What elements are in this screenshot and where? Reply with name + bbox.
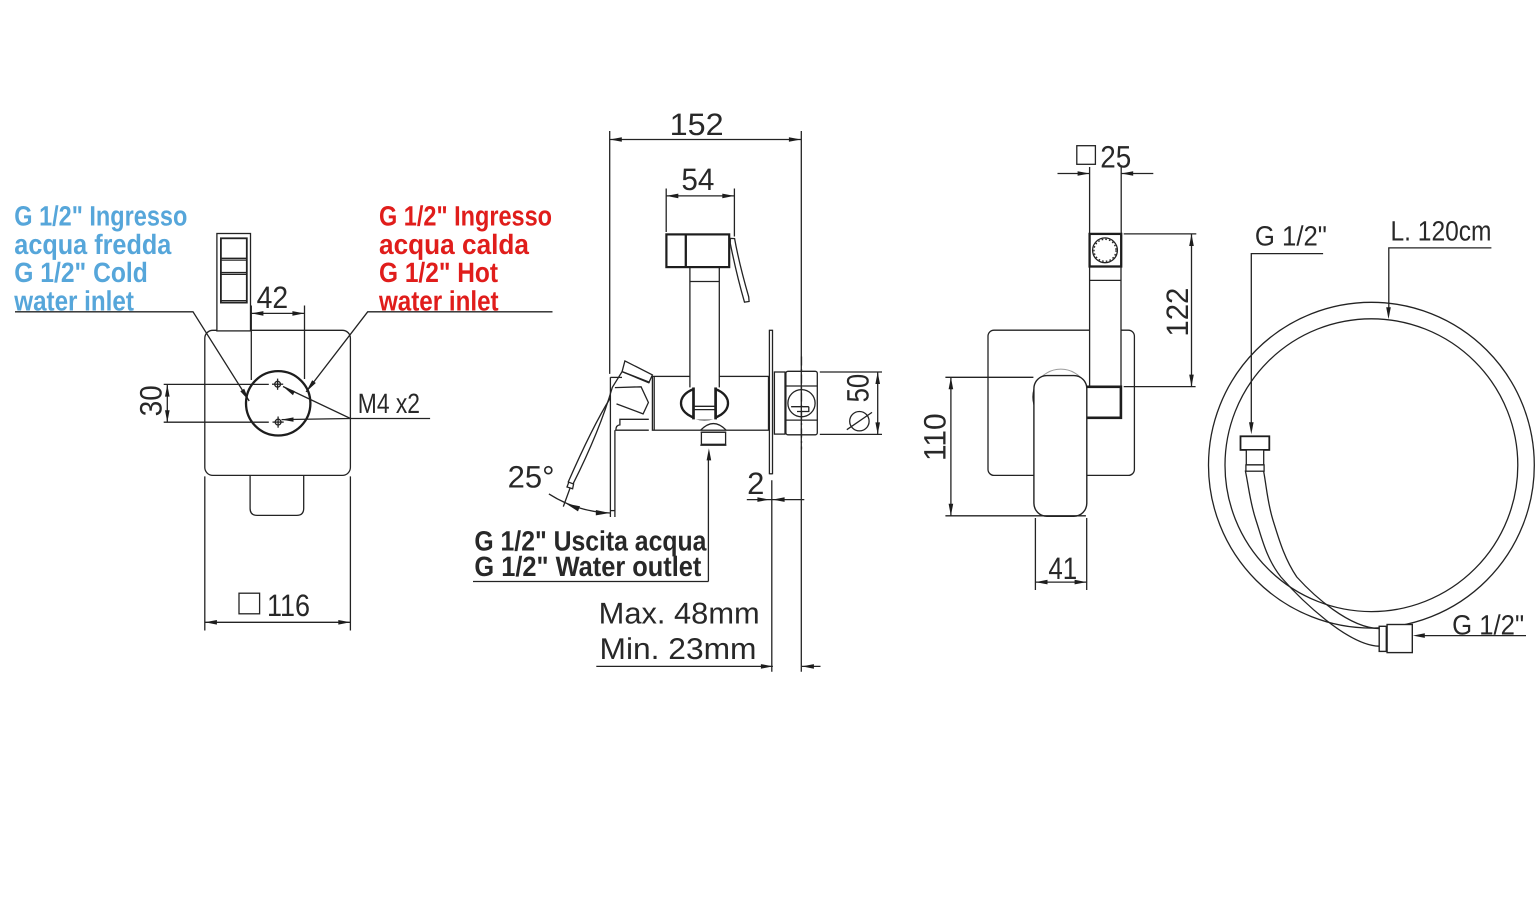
svg-text:G 1/2" Ingresso: G 1/2" Ingresso bbox=[379, 201, 552, 232]
dimension 122 (rotated) bbox=[1160, 234, 1195, 387]
svg-text:M4 x2: M4 x2 bbox=[358, 388, 420, 419]
holder bracket (thick) bbox=[1085, 387, 1121, 418]
dimension diam 50 extension lines bbox=[820, 371, 882, 373]
mixer lever arm (25 deg) bbox=[567, 372, 622, 489]
dimension 110 extension lines bbox=[945, 376, 1033, 378]
svg-text:acqua fredda: acqua fredda bbox=[14, 229, 171, 260]
labels Max/Min depth bbox=[599, 598, 760, 667]
escutcheon circle on plate bbox=[246, 371, 310, 435]
dimension 54 bbox=[666, 162, 734, 198]
svg-text:G 1/2" Hot: G 1/2" Hot bbox=[379, 257, 498, 288]
dimension diam 50 (rotated) bbox=[841, 372, 881, 434]
dimension 42 extension lines bbox=[250, 306, 252, 381]
wall plate edge-on (2mm) bbox=[769, 330, 772, 475]
wall plate (front view, square 116) bbox=[205, 330, 351, 475]
dimension 30 extension lines bbox=[164, 383, 269, 385]
in-wall flange ring bbox=[774, 372, 785, 434]
svg-text:54: 54 bbox=[681, 162, 714, 197]
label: water outlet (bold) bbox=[474, 526, 706, 583]
dimension square-25 bbox=[1058, 140, 1154, 176]
hand shower tube narrow section through ring bbox=[694, 386, 716, 419]
label L 120cm with leader to hose bbox=[1386, 216, 1491, 320]
label: hot water inlet text (red) bbox=[378, 201, 552, 317]
dimension 2 (plate thickness) bbox=[747, 466, 805, 502]
svg-text:G 1/2" Ingresso: G 1/2" Ingresso bbox=[14, 201, 187, 232]
svg-text:152: 152 bbox=[670, 107, 724, 142]
dimension 42 bbox=[251, 280, 304, 316]
svg-text:2: 2 bbox=[747, 466, 764, 501]
hand shower column (side) bbox=[1090, 267, 1121, 387]
svg-text:25°: 25° bbox=[508, 460, 555, 495]
dimension Max/Min line with arrows bbox=[596, 664, 820, 669]
svg-text:G 1/2" Cold: G 1/2" Cold bbox=[14, 257, 148, 288]
control handle (side view) bbox=[1034, 376, 1087, 517]
hand shower holder ring bbox=[681, 387, 728, 419]
hand shower tube bbox=[690, 267, 719, 387]
hose top fitting bbox=[1241, 436, 1270, 471]
in-wall valve body bbox=[786, 371, 817, 435]
wall reference line (right extension, full height) bbox=[800, 131, 802, 672]
centerline of in-wall body bbox=[801, 357, 803, 450]
valve base step bbox=[610, 419, 648, 517]
screw hole bottom bbox=[273, 417, 284, 428]
svg-text:Max. 48mm: Max. 48mm bbox=[599, 598, 760, 631]
svg-text:acqua calda: acqua calda bbox=[379, 229, 529, 260]
wall plate (side view) bbox=[988, 330, 1134, 475]
hand shower holder behind plate (front view) bbox=[250, 476, 304, 516]
hose coil inner circle bbox=[1225, 319, 1518, 612]
hose bottom fitting bbox=[1379, 625, 1412, 653]
hand shower trigger lever bbox=[730, 238, 749, 302]
hand shower head (side) with knurled button bbox=[1090, 234, 1122, 267]
svg-text:41: 41 bbox=[1048, 551, 1077, 586]
label: cold water inlet text (blue) bbox=[13, 201, 187, 317]
mixer handle (front view, vertical lever) bbox=[217, 234, 251, 331]
svg-text:42: 42 bbox=[257, 280, 289, 315]
outlet label leader bbox=[473, 448, 711, 581]
dimension 152 extension lines bbox=[609, 131, 611, 374]
screw hole top bbox=[272, 379, 283, 390]
hand shower head bbox=[666, 234, 729, 267]
hose spiral inner edge bbox=[1264, 471, 1380, 629]
svg-text:L. 120cm: L. 120cm bbox=[1391, 216, 1492, 247]
dimension 41 extension lines bbox=[1034, 518, 1036, 590]
svg-text:25: 25 bbox=[1100, 140, 1131, 175]
svg-text:110: 110 bbox=[918, 413, 953, 461]
label G 1/2 top with leader to top fitting bbox=[1249, 221, 1327, 435]
svg-text:Min. 23mm: Min. 23mm bbox=[600, 633, 757, 666]
in-wall valve circle bbox=[788, 390, 815, 417]
leader line from cold water label to left screw hole bbox=[15, 312, 249, 401]
label G 1/2 bottom with leader to bottom fitting bbox=[1413, 610, 1526, 641]
dimension 122 extension lines bbox=[1124, 233, 1197, 235]
dimension 110 (rotated) bbox=[918, 377, 954, 516]
extension line below plate bbox=[771, 480, 773, 672]
svg-text:116: 116 bbox=[267, 588, 310, 623]
svg-text:G 1/2": G 1/2" bbox=[1255, 221, 1327, 252]
svg-text:30: 30 bbox=[134, 385, 169, 416]
dimension 41 bbox=[1035, 551, 1086, 586]
mixer lever grip (side view) bbox=[622, 361, 652, 383]
angle 25 deg arc and label bbox=[508, 460, 610, 516]
dimension 54 extension lines bbox=[665, 189, 667, 233]
svg-text:122: 122 bbox=[1160, 288, 1195, 337]
dimension 152 bbox=[610, 107, 801, 142]
hose spiral outer edge bbox=[1245, 471, 1379, 647]
svg-text:50: 50 bbox=[841, 374, 876, 403]
dimension square-116 bbox=[205, 588, 351, 625]
mixer valve cap (pentagon) bbox=[610, 377, 648, 517]
escutcheon circle behind handle bbox=[1033, 369, 1089, 425]
water outlet spout bbox=[700, 424, 726, 446]
dimension 25 extension lines bbox=[1089, 167, 1091, 233]
label M4 x2 with leaders to both screw holes bbox=[282, 387, 431, 422]
mixer body (horizontal) bbox=[652, 376, 768, 430]
dimension 116 extension lines bbox=[204, 476, 206, 630]
leader line from hot water label to right screw hole bbox=[306, 312, 552, 392]
hose coil outer circle bbox=[1209, 302, 1535, 628]
svg-text:G 1/2" Water outlet: G 1/2" Water outlet bbox=[474, 551, 701, 582]
dimension 30 (rotated) bbox=[134, 385, 170, 423]
